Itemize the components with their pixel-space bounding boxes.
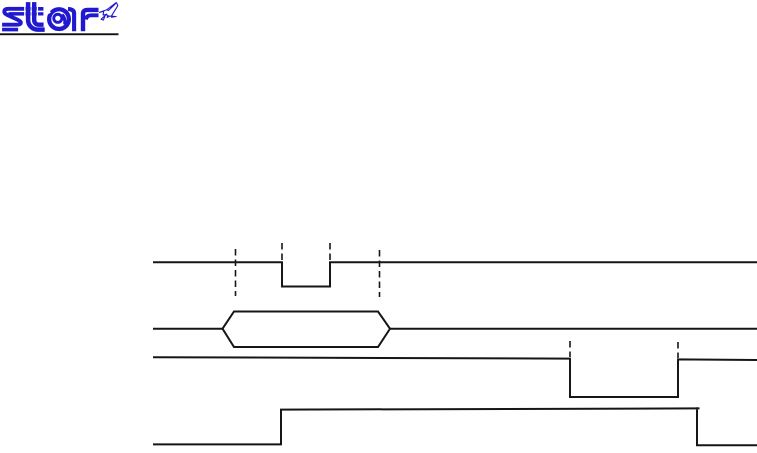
logo letter r: [83, 10, 99, 31]
dashed marker line 2 (x282, pulse falling edge): [281, 243, 283, 261]
logo letter t: [26, 2, 45, 30]
dashed marker line 5 (x570, falling edge): [569, 341, 571, 357]
logo letter a (spiral): [49, 9, 74, 31]
dashed marker line 1 (x235): [235, 249, 237, 296]
logo underline rule: [0, 33, 119, 35]
logo bird symbol: [99, 2, 117, 20]
dashed marker line 6 (x678, rising edge): [677, 342, 679, 358]
dashed marker line 4 (x379): [379, 250, 381, 297]
waveform 1 wire: high line with low strobe pulse (x282-x330): [154, 262, 757, 286]
dashed marker line 3 (x330, pulse rising edge): [329, 243, 331, 261]
logo letter s: [2, 9, 24, 30]
waveform 2: data bus valid hexagon, bottom edge: [223, 329, 391, 347]
waveform 3 wire: high line with low pulse (x570-x678): [154, 357, 756, 397]
white lattice cuts in letters t and a: [31, 2, 50, 17]
waveform 4 wire: busy signal low-high-low: [154, 408, 757, 445]
waveform 2 wire: data bus valid hexagon, top edge and tails: [154, 312, 757, 329]
